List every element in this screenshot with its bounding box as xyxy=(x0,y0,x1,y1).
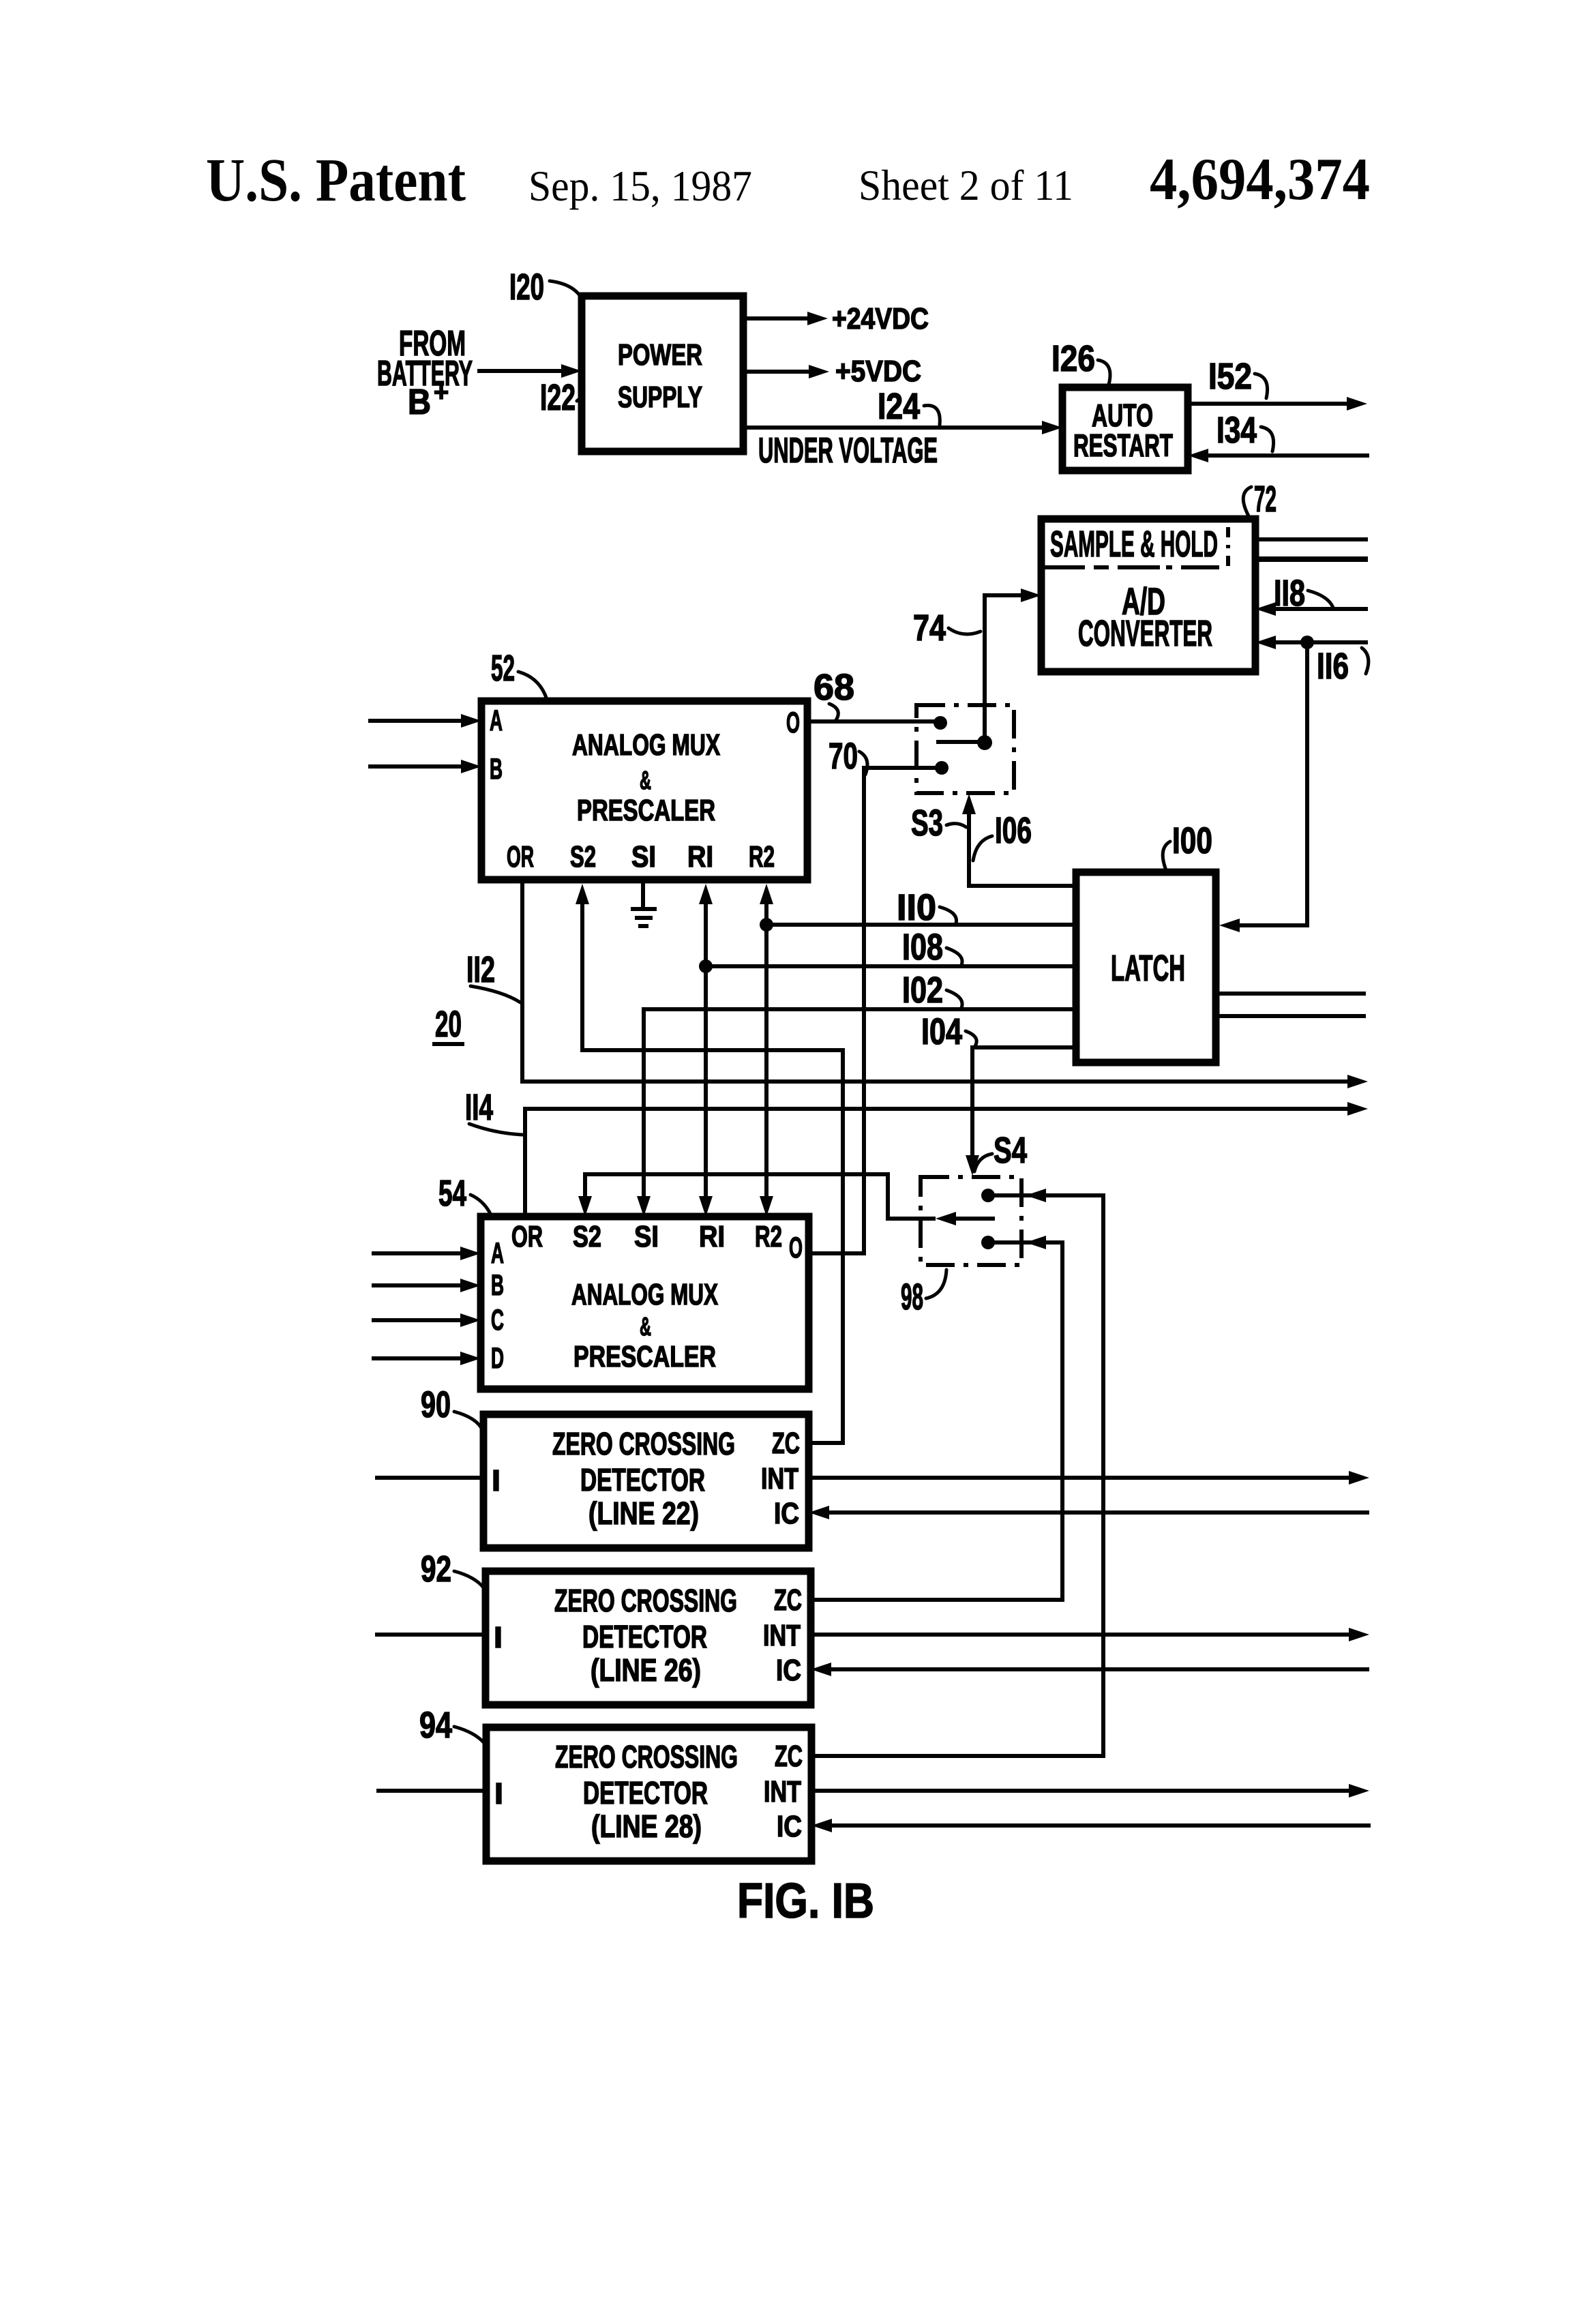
auto restart U126 box xyxy=(1062,387,1188,471)
S4 contact node upper xyxy=(981,1189,995,1202)
label 94 xyxy=(419,1705,484,1746)
svg-text:I22: I22 xyxy=(540,377,576,418)
wire INT of U94 long right arrow xyxy=(811,1789,1350,1793)
wire 68 from U52 output O to S3 xyxy=(807,719,940,724)
wire S4 upper contact to ZC of U94 xyxy=(811,1189,1103,1756)
svg-text:S2: S2 xyxy=(573,1220,601,1253)
svg-text:DETECTOR: DETECTOR xyxy=(580,1462,705,1498)
svg-text:I04: I04 xyxy=(921,1011,962,1052)
svg-text:II0: II0 xyxy=(897,887,936,928)
wire latch output upper xyxy=(1216,992,1366,996)
analog mux & prescaler U52 box xyxy=(481,701,807,880)
label 20 underlined xyxy=(432,1004,464,1045)
wire 134 input xyxy=(1206,453,1369,458)
svg-text:(LINE 28): (LINE 28) xyxy=(591,1808,702,1844)
label 122 xyxy=(540,377,584,418)
svg-text:ZC: ZC xyxy=(774,1583,802,1617)
svg-text:OR: OR xyxy=(511,1220,543,1253)
label 100 xyxy=(1163,820,1212,870)
svg-text:DETECTOR: DETECTOR xyxy=(582,1619,707,1654)
svg-text:LATCH: LATCH xyxy=(1111,948,1185,989)
latch U100 box xyxy=(1076,872,1216,1062)
wire 152 output xyxy=(1188,402,1349,406)
svg-text:92: 92 xyxy=(421,1549,451,1590)
zero crossing detector U90 box xyxy=(483,1414,809,1548)
ground on SI of U52 xyxy=(631,881,657,926)
label 112 xyxy=(466,949,520,1002)
svg-text:A: A xyxy=(490,704,503,737)
svg-text:PRESCALER: PRESCALER xyxy=(577,794,715,827)
svg-text:I34: I34 xyxy=(1217,410,1257,451)
svg-text:A: A xyxy=(491,1237,504,1270)
svg-text:RI: RI xyxy=(687,840,713,874)
svg-text:U.S. Patent: U.S. Patent xyxy=(206,147,466,214)
label 152 xyxy=(1208,356,1268,398)
svg-text:SI: SI xyxy=(631,840,656,874)
svg-text:ZERO CROSSING: ZERO CROSSING xyxy=(552,1426,735,1461)
svg-text:UNDER VOLTAGE: UNDER VOLTAGE xyxy=(758,431,938,471)
wire IC of U90 from right xyxy=(826,1510,1369,1515)
svg-text:C: C xyxy=(491,1304,504,1337)
wire input B of U54 xyxy=(372,1283,463,1287)
svg-text:ANALOG MUX: ANALOG MUX xyxy=(572,728,720,762)
svg-text:&: & xyxy=(640,1313,651,1341)
svg-text:90: 90 xyxy=(421,1384,451,1425)
svg-text:72: 72 xyxy=(1254,479,1277,520)
S4 contact node lower xyxy=(981,1236,995,1249)
svg-text:70: 70 xyxy=(829,736,858,777)
svg-text:R2: R2 xyxy=(755,1220,782,1253)
svg-text:68: 68 xyxy=(814,667,854,708)
wire S4 lower contact to ZC of U92 xyxy=(811,1236,1062,1600)
svg-text:II6: II6 xyxy=(1317,646,1349,687)
svg-text:II8: II8 xyxy=(1274,573,1305,614)
svg-text:ZERO CROSSING: ZERO CROSSING xyxy=(555,1739,738,1774)
svg-text:I26: I26 xyxy=(1051,338,1095,379)
svg-text:ANALOG MUX: ANALOG MUX xyxy=(571,1278,718,1311)
svg-text:&: & xyxy=(640,766,651,795)
wire 118 into A/D xyxy=(1273,607,1368,611)
wire A/D output bus upper xyxy=(1255,537,1368,541)
svg-text:I: I xyxy=(494,1777,503,1811)
analog mux & prescaler U54 box xyxy=(481,1217,809,1389)
wire input A of U52 xyxy=(368,719,464,723)
svg-text:OR: OR xyxy=(507,840,534,874)
wire 116 into A/D with junction xyxy=(1273,640,1368,644)
svg-text:IC: IC xyxy=(774,1497,799,1530)
svg-text:S2: S2 xyxy=(570,840,596,874)
svg-text:74: 74 xyxy=(913,608,946,649)
svg-text:52: 52 xyxy=(491,648,515,689)
wire RI vertical U52-U54 with junction xyxy=(699,884,713,1217)
svg-text:ZC: ZC xyxy=(772,1427,800,1460)
power supply U120 box xyxy=(582,296,743,451)
svg-text:B: B xyxy=(408,383,431,422)
wire input A of U54 xyxy=(372,1251,463,1255)
wire A/D output bus lower xyxy=(1255,556,1368,562)
wire 110 latch to R2 xyxy=(766,923,1076,927)
label 134 xyxy=(1217,410,1274,451)
svg-text:+24VDC: +24VDC xyxy=(832,302,929,336)
S3 contact node 68 xyxy=(934,716,947,730)
svg-text:+5VDC: +5VDC xyxy=(835,355,921,388)
label 68 xyxy=(814,667,854,720)
svg-text:I00: I00 xyxy=(1172,820,1212,861)
svg-text:ZERO CROSSING: ZERO CROSSING xyxy=(554,1583,737,1618)
svg-text:O: O xyxy=(786,706,800,739)
label 98 xyxy=(901,1270,946,1317)
wire 108 latch to RI xyxy=(706,964,1076,968)
label 118 xyxy=(1274,573,1333,614)
svg-text:(LINE 22): (LINE 22) xyxy=(588,1495,699,1531)
S3 contact node 70 xyxy=(935,761,949,775)
svg-text:SAMPLE & HOLD: SAMPLE & HOLD xyxy=(1050,524,1218,565)
label 110 xyxy=(897,887,957,928)
svg-text:INT: INT xyxy=(764,1775,801,1808)
wire latch output lower xyxy=(1216,1014,1366,1018)
wire 124 under voltage to auto restart xyxy=(743,421,1062,471)
wire 102 latch to SI of U54 xyxy=(637,1009,1076,1217)
svg-text:PRESCALER: PRESCALER xyxy=(573,1340,716,1373)
wire S2 of U52 down to ZC of U90 xyxy=(576,884,843,1443)
svg-text:CONVERTER: CONVERTER xyxy=(1078,613,1212,654)
wire +24VDC output xyxy=(743,302,929,336)
svg-text:98: 98 xyxy=(901,1277,923,1317)
svg-text:I24: I24 xyxy=(878,386,920,427)
svg-text:O: O xyxy=(789,1232,803,1264)
svg-text:S3: S3 xyxy=(911,803,943,844)
wire input I of U94 xyxy=(376,1789,486,1793)
label 120 xyxy=(509,267,584,308)
label 72 xyxy=(1243,479,1277,520)
svg-text:20: 20 xyxy=(435,1004,462,1045)
wire IC of U92 from right xyxy=(829,1667,1369,1671)
svg-text:4,694,374: 4,694,374 xyxy=(1150,147,1370,213)
svg-text:SI: SI xyxy=(634,1220,659,1253)
svg-text:I02: I02 xyxy=(902,970,943,1011)
wire +5VDC output xyxy=(743,355,921,388)
label FROM BATTERY B+ xyxy=(377,324,473,422)
wire 74 from S3 pole up into A/D xyxy=(985,589,1041,741)
label 104 xyxy=(921,1011,976,1052)
wire 106 from S3 to latch xyxy=(962,794,1076,886)
wire 116 down to latch xyxy=(1237,642,1307,925)
svg-text:Sheet 2 of 11: Sheet 2 of 11 xyxy=(859,162,1073,209)
wire S2 of U54 to S4 wiper xyxy=(578,1174,995,1225)
wire R2 vertical U52-U54 with junction xyxy=(760,884,773,1217)
svg-text:(LINE 26): (LINE 26) xyxy=(591,1652,701,1688)
svg-text:IC: IC xyxy=(777,1810,802,1843)
wire 112: OR of U52 to long right arrow xyxy=(522,880,1368,1088)
svg-text:I08: I08 xyxy=(902,927,943,968)
svg-text:B: B xyxy=(490,753,503,786)
wire INT of U92 long right arrow xyxy=(811,1633,1350,1637)
svg-text:B: B xyxy=(491,1269,504,1302)
A/D converter U72 box with sample & hold xyxy=(1041,519,1255,672)
label 126 xyxy=(1051,338,1110,385)
svg-text:54: 54 xyxy=(438,1173,466,1214)
label 116 xyxy=(1317,646,1369,687)
wire input B of U52 xyxy=(368,764,464,769)
svg-text:SUPPLY: SUPPLY xyxy=(618,381,702,414)
svg-text:INT: INT xyxy=(763,1619,801,1652)
label 92 xyxy=(421,1549,483,1590)
switch S4 dash-dot enclosure xyxy=(921,1177,1021,1265)
switch S3 dash-dot enclosure xyxy=(916,705,1014,793)
label S3 with leader xyxy=(911,803,966,844)
svg-text:POWER: POWER xyxy=(618,338,702,372)
svg-text:I: I xyxy=(492,1464,501,1498)
label 74 xyxy=(913,608,981,649)
svg-text:INT: INT xyxy=(761,1462,799,1495)
svg-text:II2: II2 xyxy=(466,949,495,990)
svg-text:I52: I52 xyxy=(1208,356,1252,397)
label S4 with leader xyxy=(974,1130,1027,1172)
wire from battery into power supply xyxy=(477,369,564,373)
label 106 xyxy=(973,810,1032,861)
svg-text:DETECTOR: DETECTOR xyxy=(583,1775,708,1811)
label 108 xyxy=(902,927,962,968)
S3 wiper pole xyxy=(936,735,992,750)
wire input I of U90 xyxy=(375,1476,483,1480)
svg-text:I06: I06 xyxy=(995,810,1032,851)
svg-text:I: I xyxy=(494,1621,503,1654)
wire 104 latch to S4 xyxy=(966,1047,1076,1176)
label 114 xyxy=(465,1087,522,1135)
label 54 xyxy=(438,1173,492,1218)
node 116 junction xyxy=(1300,636,1314,649)
label 102 xyxy=(902,970,962,1011)
svg-text:94: 94 xyxy=(419,1705,452,1746)
svg-text:IC: IC xyxy=(776,1654,801,1687)
svg-text:I20: I20 xyxy=(509,267,544,308)
svg-text:D: D xyxy=(491,1342,504,1375)
label 90 xyxy=(421,1384,481,1428)
svg-text:ZC: ZC xyxy=(775,1740,803,1773)
label 124 xyxy=(878,386,940,427)
wire input C of U54 xyxy=(372,1318,463,1322)
wire input I of U92 xyxy=(375,1633,486,1637)
svg-text:II4: II4 xyxy=(465,1087,493,1128)
svg-text:RESTART: RESTART xyxy=(1073,428,1173,463)
wire input D of U54 xyxy=(372,1356,463,1360)
wire INT of U90 long right arrow xyxy=(809,1476,1350,1480)
label 52 xyxy=(491,648,547,700)
svg-text:R2: R2 xyxy=(749,840,775,874)
svg-text:S4: S4 xyxy=(994,1130,1027,1171)
wire 114 long right arrow and down to OR of U54 xyxy=(525,1102,1368,1217)
svg-text:RI: RI xyxy=(699,1220,725,1253)
zero crossing detector U92 box xyxy=(486,1571,811,1705)
wire IC of U94 from right xyxy=(829,1823,1371,1828)
zero crossing detector U94 box xyxy=(486,1727,811,1861)
label 70 xyxy=(829,736,867,777)
svg-text:Sep. 15, 1987: Sep. 15, 1987 xyxy=(528,162,752,210)
svg-text:FIG. IB: FIG. IB xyxy=(737,1874,874,1928)
svg-text:+: + xyxy=(434,378,449,407)
wire 70 from U54 output O to S3 xyxy=(809,768,942,1253)
